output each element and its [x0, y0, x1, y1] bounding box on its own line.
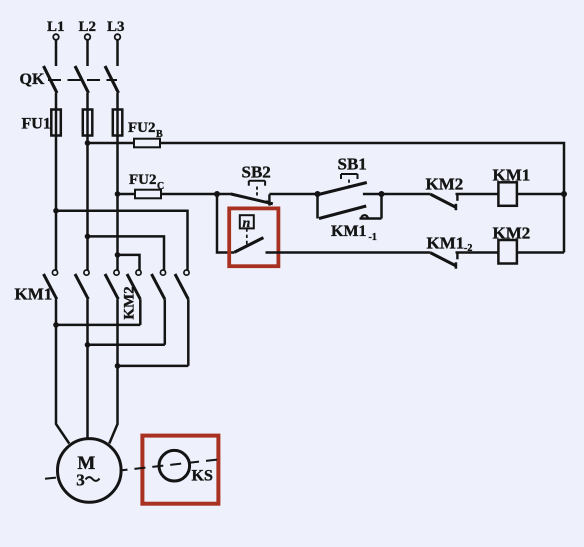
- node join pole2: [85, 342, 91, 348]
- coil KM2: [493, 224, 531, 264]
- wire KS contact to KM1-2: [266, 251, 431, 254]
- wire QK to FU1 phase3: [116, 93, 119, 270]
- svg-text:FU2: FU2: [129, 172, 157, 188]
- fuse FU1 pole c: [113, 110, 123, 136]
- wire motor phase3: [109, 299, 117, 443]
- speed relay KS: [159, 450, 213, 484]
- speed contact KS (n): [234, 215, 263, 252]
- svg-text:KM1: KM1: [331, 223, 367, 240]
- svg-text:KS: KS: [192, 468, 213, 485]
- node FU2B tap: [85, 140, 91, 146]
- node phase2 tap: [85, 234, 91, 240]
- wire join KM2 pole1: [56, 324, 140, 327]
- wire FU2C to SB2: [161, 193, 232, 196]
- fuse FU1 pole a: [51, 110, 61, 136]
- node join pole3: [115, 363, 121, 369]
- KM2 main pole 3: [175, 270, 189, 366]
- svg-text:3: 3: [76, 471, 85, 490]
- node FU2C tap: [115, 191, 121, 197]
- wire QK to FU1 phase2: [86, 93, 89, 270]
- wire SB1 to KM2 contact: [382, 193, 431, 196]
- terminal L1: [47, 19, 65, 66]
- red highlight box KS relay: [142, 436, 218, 504]
- wire top rail: [160, 143, 564, 253]
- svg-text:L3: L3: [107, 19, 125, 35]
- svg-text:FU1: FU1: [22, 116, 51, 133]
- terminal L2: [79, 19, 97, 66]
- svg-text:KM1: KM1: [15, 285, 53, 304]
- wire join KM2 pole3: [118, 365, 189, 368]
- pushbutton SB2 (NC): [231, 163, 273, 206]
- wire KM1-2 to coil KM2: [456, 251, 499, 254]
- wire join KM2 pole2: [88, 344, 165, 347]
- node right rail: [561, 191, 567, 197]
- KM1 main pole 3: [105, 270, 119, 299]
- NC contact KM1-2: [427, 234, 473, 269]
- wire branch down to KS contact: [217, 194, 234, 253]
- svg-text:L2: L2: [79, 19, 97, 35]
- pushbutton SB1 (NO): [318, 155, 382, 195]
- node SB1 left: [315, 191, 321, 197]
- svg-text:L1: L1: [47, 19, 65, 35]
- node phase3 tap: [115, 252, 121, 258]
- wire tap L1 to KM2 pole3: [56, 211, 188, 270]
- KM2 main pole 2: [152, 270, 166, 345]
- KM1 main pole 1: [44, 270, 58, 299]
- wire motor phase1: [56, 299, 69, 443]
- wire FU2B left: [88, 142, 135, 145]
- wire SB2 to SB1: [269, 193, 317, 196]
- svg-text:-1: -1: [369, 232, 377, 243]
- node phase1 tap: [53, 208, 59, 214]
- node SB1 right: [379, 191, 385, 197]
- svg-text:SB1: SB1: [338, 155, 367, 174]
- motor M: [58, 439, 122, 503]
- wire coil KM2 to rail: [517, 251, 564, 254]
- terminal L3: [107, 19, 125, 66]
- KM1 main pole 2: [75, 270, 89, 299]
- wire KM2 contact to coil KM1: [456, 193, 499, 196]
- KM2 main pole 1: [127, 270, 141, 325]
- svg-text:KM1: KM1: [427, 234, 465, 253]
- wire FU2C left: [118, 193, 136, 196]
- aux contact KM1-1: [318, 194, 382, 243]
- fuse FU1 pole b: [83, 110, 93, 136]
- wire QK to FU1 phase1: [55, 93, 58, 270]
- wire tap L3 to KM2 pole1: [118, 255, 140, 270]
- svg-text:KM2: KM2: [426, 175, 464, 194]
- fuse FU2C: [129, 172, 164, 198]
- svg-text:SB2: SB2: [242, 163, 271, 182]
- wire coil KM1 to rail: [517, 193, 564, 196]
- fuse FU2B: [128, 120, 163, 147]
- node join pole1: [53, 322, 59, 328]
- wire motor phase2: [86, 299, 89, 440]
- breaker QK: [20, 66, 119, 93]
- coil KM1: [493, 166, 531, 206]
- svg-text:FU2: FU2: [128, 120, 156, 136]
- wire tap L2 to KM2 pole2: [88, 236, 165, 270]
- NC contact KM2: [426, 175, 464, 211]
- svg-text:QK: QK: [20, 71, 45, 88]
- node control branch: [214, 191, 220, 197]
- red highlight box KS contact: [229, 208, 278, 266]
- shaft dashed line: [45, 459, 221, 479]
